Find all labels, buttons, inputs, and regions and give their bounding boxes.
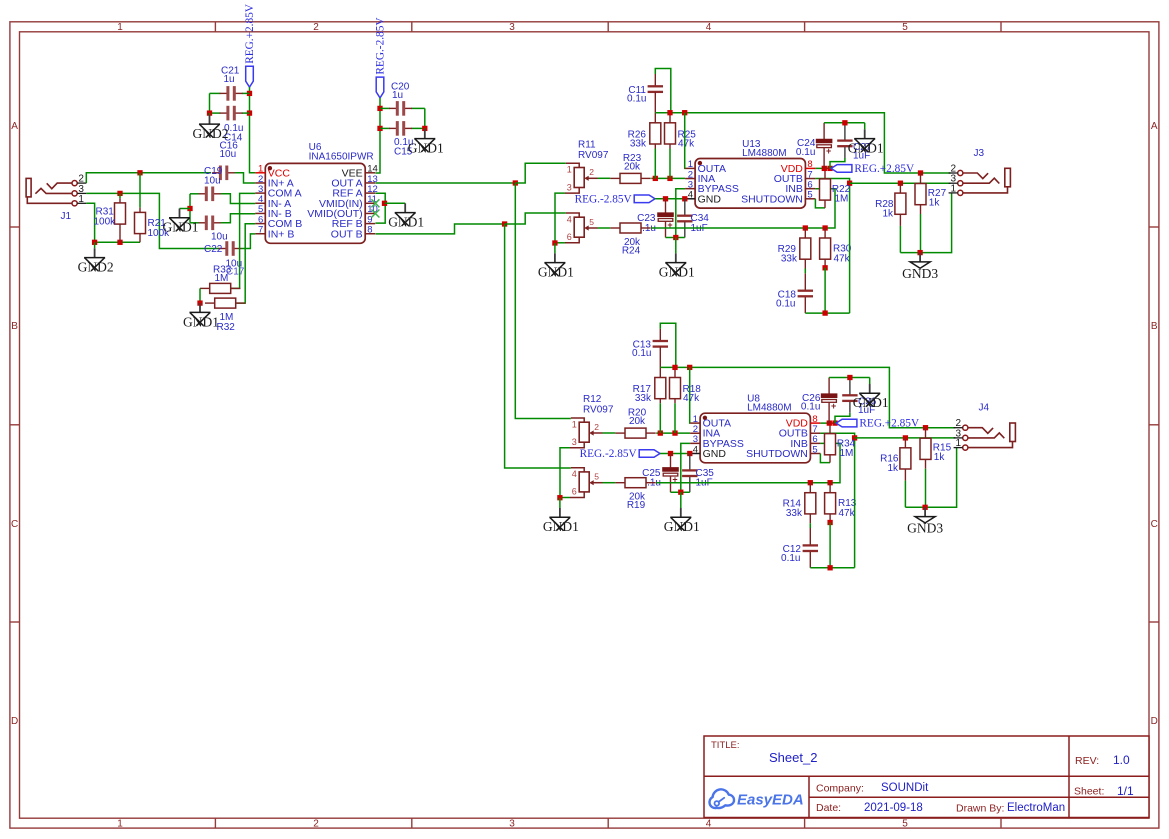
resistor R22 — [820, 168, 831, 208]
junction VDD b — [827, 166, 832, 171]
resistor R32 — [205, 298, 245, 308]
resistor R34 — [825, 423, 836, 463]
resistor R17 — [655, 367, 666, 403]
wire RloadA down — [920, 214, 922, 253]
label R23 — [623, 153, 642, 164]
svg-text:1: 1 — [567, 165, 572, 175]
label 33k — [635, 393, 652, 404]
svg-text:B: B — [11, 321, 18, 332]
label C16 — [220, 141, 239, 152]
wire RloadA down — [925, 469, 927, 508]
junction R33kB — [803, 225, 808, 230]
junction node INP-A — [137, 170, 142, 175]
junction bottom bus — [822, 310, 827, 315]
label R25 — [678, 130, 697, 141]
label 20k — [629, 492, 646, 503]
op-amp U8 LM4880M — [690, 413, 820, 463]
label 0.1u — [394, 137, 413, 148]
resistor R27 — [915, 173, 926, 214]
wire to GND1 — [180, 208, 191, 210]
label 10u — [226, 259, 243, 270]
svg-text:0.1u: 0.1u — [632, 348, 651, 359]
junction bus OUTA — [682, 110, 687, 115]
label LM4880M — [742, 148, 786, 159]
label R33 — [213, 265, 232, 276]
label 1k — [929, 198, 941, 209]
wire R47k to INA — [674, 403, 676, 433]
label R13 — [838, 498, 857, 509]
potentiometer R12 section 1-2-3 — [570, 418, 603, 448]
wire pot pin3 to gnd — [560, 448, 570, 498]
svg-text:Sheet_2: Sheet_2 — [769, 750, 817, 765]
wire OUT B to R12.4 — [505, 224, 571, 468]
svg-text:1u: 1u — [224, 74, 235, 85]
svg-text:R11: R11 — [578, 140, 596, 151]
wire C21/C14 gnd — [209, 93, 211, 113]
svg-text:4: 4 — [706, 819, 712, 830]
ground GND1 — [388, 203, 424, 229]
wire RloadB down — [899, 226, 901, 253]
ground GND2 — [193, 113, 229, 141]
label C23 — [637, 213, 656, 224]
resistor R26 — [650, 113, 661, 149]
label R14 — [783, 499, 802, 510]
wire R47kB down — [824, 268, 826, 313]
junction OUT A split — [513, 180, 518, 185]
svg-text:A: A — [11, 121, 18, 132]
wire decoupling cap b — [830, 158, 845, 168]
svg-text:1: 1 — [951, 183, 957, 194]
label LM4880M — [747, 403, 791, 414]
label 1u — [224, 74, 235, 85]
wire R33k to INA — [659, 403, 661, 433]
svg-text:10u: 10u — [204, 176, 221, 187]
svg-text:J3: J3 — [974, 148, 985, 159]
wire R33 to GND1 — [199, 288, 201, 303]
svg-text:LM4880M: LM4880M — [742, 148, 786, 159]
svg-text:1: 1 — [117, 819, 123, 830]
wire RseriesA to INA — [656, 432, 690, 434]
svg-text:0.1u: 0.1u — [801, 402, 820, 413]
svg-text:GND1: GND1 — [163, 220, 199, 235]
svg-text:5: 5 — [812, 444, 817, 455]
wire wiper2 to RseriesA — [598, 177, 611, 179]
wire VDD rail — [815, 167, 831, 169]
wire R33k to INA — [654, 149, 656, 179]
svg-text:5: 5 — [902, 819, 908, 830]
junction R47kB bottom — [827, 520, 832, 525]
wire pot pin6 to gnd — [559, 497, 570, 499]
svg-text:47k: 47k — [683, 393, 700, 404]
label C20 — [391, 82, 410, 93]
svg-text:20k: 20k — [629, 416, 646, 427]
junction jack ring Rload — [903, 435, 908, 440]
resistor R21 — [135, 208, 146, 243]
label 0.1u — [627, 94, 646, 105]
label R34 — [837, 439, 856, 450]
junction C bypass b — [682, 196, 687, 201]
ground GND1 — [538, 243, 574, 279]
wire pot pin6 to gnd — [554, 242, 565, 244]
wire C20 left — [380, 107, 390, 109]
junction bottom bus — [827, 565, 832, 570]
label C26 — [802, 393, 821, 404]
label J1 — [61, 211, 72, 222]
svg-text:GND1: GND1 — [853, 395, 889, 410]
ground GND1 — [853, 378, 889, 411]
junction OUTB — [847, 181, 852, 186]
junction OUTB — [852, 435, 857, 440]
label 1uF — [691, 223, 708, 234]
ground GND1 — [408, 128, 444, 155]
capacitor C16 10u — [212, 166, 235, 181]
junction R47kB — [827, 480, 832, 485]
title block texts — [711, 740, 1134, 815]
label C27 — [853, 142, 872, 153]
wire cap ground bus — [189, 194, 191, 223]
svg-text:1u: 1u — [392, 90, 403, 101]
svg-text:4: 4 — [572, 469, 577, 479]
svg-text:4: 4 — [706, 22, 712, 33]
svg-text:1: 1 — [78, 194, 84, 205]
wire VCC rail — [250, 87, 256, 173]
svg-text:REG.-2.85V: REG.-2.85V — [575, 193, 633, 205]
resistor R23 — [610, 173, 650, 183]
junction bus R47k — [667, 110, 672, 115]
potentiometer R11 section 4-5-6 — [565, 213, 598, 243]
wire C21 left — [210, 92, 221, 94]
svg-text:6: 6 — [567, 232, 572, 242]
wire R to C18 — [809, 523, 811, 528]
label 47k — [839, 508, 856, 519]
junction bus OUTA — [687, 365, 692, 370]
power flag REG.+2.85V — [836, 418, 920, 430]
svg-text:47k: 47k — [834, 254, 851, 265]
label R28 — [875, 199, 894, 210]
wire OUT B to R11.4 — [505, 213, 566, 224]
wire J1 tip to C16 — [86, 173, 211, 183]
junction pot gnd — [557, 495, 562, 500]
svg-text:+: + — [826, 146, 831, 156]
wire COM A to R33 — [231, 193, 255, 288]
svg-text:EasyEDA: EasyEDA — [737, 792, 804, 809]
connector audio jack J4 — [954, 418, 1016, 450]
label C36 — [858, 397, 877, 408]
wire J1 ring to C22 — [86, 193, 219, 248]
label 10u — [211, 232, 228, 243]
label R31 — [96, 207, 115, 218]
junction C14 gnd — [207, 110, 212, 115]
resistor R30 — [820, 228, 831, 268]
wire C20/C15 gnd — [424, 108, 426, 128]
svg-text:GND3: GND3 — [907, 521, 943, 536]
ground GND1 — [543, 498, 579, 534]
svg-text:2: 2 — [313, 819, 319, 830]
wire RloadB down — [904, 481, 906, 508]
label 20k — [624, 237, 641, 248]
label 0.1u — [801, 402, 820, 413]
svg-text:Sheet:: Sheet: — [1074, 786, 1104, 798]
wire OUTB to jack ring — [850, 182, 951, 184]
junction jack tip Rload — [923, 425, 928, 430]
wire bus to C19 — [190, 193, 199, 195]
label R21 — [148, 218, 167, 229]
junction C15 — [377, 126, 382, 131]
svg-text:6: 6 — [572, 487, 577, 497]
junction GND2 node — [92, 240, 97, 245]
svg-text:10u: 10u — [211, 232, 228, 243]
junction R33k bottom — [658, 430, 663, 435]
svg-text:D: D — [11, 716, 18, 727]
label R29 — [778, 244, 797, 255]
svg-text:2: 2 — [313, 22, 319, 33]
wire INB bus — [651, 189, 835, 228]
svg-text:C: C — [11, 519, 18, 530]
svg-text:GND2: GND2 — [78, 260, 114, 275]
capacitor C26 0.1u — [821, 378, 838, 424]
svg-text:33k: 33k — [781, 254, 798, 265]
svg-text:C22: C22 — [204, 244, 223, 255]
label R27 — [928, 188, 947, 199]
svg-text:REG.+2.85V: REG.+2.85V — [244, 3, 256, 64]
svg-text:OUT B: OUT B — [331, 228, 363, 240]
svg-text:7: 7 — [258, 225, 263, 236]
svg-text:GND1: GND1 — [408, 141, 444, 156]
junction R32 gnd — [197, 300, 202, 305]
capacitor C17 10u — [198, 216, 221, 231]
power flag REG.-2.85V — [580, 448, 660, 460]
label J4 — [979, 403, 990, 414]
svg-text:J4: J4 — [979, 403, 990, 414]
svg-text:C: C — [1151, 519, 1158, 530]
wire feedback bottom bus — [805, 312, 849, 314]
wire VEE rail — [375, 98, 380, 173]
junction OUT B split — [502, 221, 507, 226]
wire C19 to IN-A — [221, 194, 256, 204]
svg-text:IN+ B: IN+ B — [268, 228, 295, 240]
svg-text:RV097: RV097 — [583, 405, 614, 416]
label 20k — [629, 416, 646, 427]
wire bus to C17 — [190, 222, 199, 224]
power flag REG.-2.85V — [375, 17, 387, 98]
wire C14 right — [242, 112, 250, 114]
svg-text:Drawn By:: Drawn By: — [956, 803, 1004, 815]
wire bus to OUTA pin — [689, 367, 691, 423]
wire C feedback loop — [655, 69, 671, 113]
svg-text:3: 3 — [509, 22, 515, 33]
junction C bypass a — [663, 196, 668, 201]
label 1M — [220, 312, 234, 323]
wire wiper5 to RseriesB — [598, 227, 611, 229]
resistor R33 — [200, 283, 240, 293]
junction GND3 — [922, 505, 927, 510]
svg-text:5: 5 — [902, 22, 908, 33]
wire C15 left — [380, 127, 390, 129]
frame row letters — [11, 121, 1158, 727]
svg-text:3: 3 — [572, 437, 577, 447]
label 0.1u — [796, 147, 815, 158]
label 47k — [678, 138, 695, 149]
svg-text:33k: 33k — [635, 393, 652, 404]
svg-text:10u: 10u — [220, 149, 237, 160]
label 1k — [882, 209, 894, 220]
wire OUT A to R12.1 — [515, 183, 571, 419]
potentiometer R11 section 1-2-3 — [565, 163, 598, 193]
junction bypass gnd — [678, 490, 683, 495]
svg-text:REG.-2.85V: REG.-2.85V — [580, 448, 638, 460]
capacitor C15 0.1u — [389, 121, 412, 136]
label 10u — [220, 149, 237, 160]
label R18 — [683, 384, 702, 395]
ground GND2 — [78, 242, 114, 274]
wire C22 to IN+B — [241, 234, 255, 249]
svg-text:Date:: Date: — [816, 802, 841, 814]
label R16 — [880, 454, 899, 465]
resistor R14 — [805, 483, 816, 524]
label 1u — [392, 90, 403, 101]
capacitor C23 0.1u — [657, 199, 674, 238]
resistor R13 — [825, 483, 836, 523]
wire OUTA bus to jack — [655, 113, 950, 173]
junction R33k bottom — [653, 176, 658, 181]
capacitor C22 10u — [219, 241, 242, 256]
wire wiper5 to RseriesB — [603, 482, 616, 484]
label R24 — [622, 246, 641, 257]
wire bus to OUTA pin — [684, 113, 686, 169]
junction node INP-B — [117, 191, 122, 196]
capacitor C19 10u — [198, 187, 221, 202]
label C18 — [778, 290, 797, 301]
svg-text:SHUTDOWN: SHUTDOWN — [746, 448, 808, 460]
wire C17 to IN-B — [221, 214, 256, 223]
capacitor C34 1uF — [677, 199, 692, 238]
svg-text:33k: 33k — [630, 138, 647, 149]
wire OUT B — [375, 224, 504, 234]
svg-text:1: 1 — [956, 438, 962, 449]
label INA1650IPWR — [309, 152, 374, 163]
label RV097 — [583, 405, 614, 416]
label 1M — [215, 273, 229, 284]
svg-text:20k: 20k — [624, 162, 641, 173]
svg-text:3: 3 — [509, 819, 515, 830]
svg-text:1: 1 — [117, 22, 123, 33]
svg-text:4: 4 — [693, 444, 698, 455]
svg-text:+: + — [831, 401, 836, 411]
svg-text:5: 5 — [807, 190, 812, 201]
svg-text:47k: 47k — [839, 508, 856, 519]
junction decoupling gnd — [842, 120, 847, 125]
junction R33kB — [808, 480, 813, 485]
label R32 — [217, 322, 236, 333]
svg-text:1k: 1k — [929, 198, 941, 209]
junction R47kB — [822, 225, 827, 230]
svg-text:GND1: GND1 — [848, 141, 884, 156]
power flag REG.+2.85V — [831, 163, 915, 175]
wire -2.85V to GND pin — [655, 198, 685, 200]
svg-text:LM4880M: LM4880M — [747, 403, 791, 414]
wire VDD rail — [820, 422, 836, 424]
svg-text:R12: R12 — [583, 394, 602, 405]
potentiometer R12 section 4-5-6 — [570, 468, 603, 498]
label 0.1u — [632, 348, 651, 359]
label RV097 — [578, 150, 609, 161]
wire decoupling gnd bus — [824, 122, 865, 124]
label C12 — [783, 544, 802, 555]
capacitor C13 0.1u — [653, 329, 668, 347]
label 47k — [834, 254, 851, 265]
svg-text:GND3: GND3 — [902, 266, 938, 281]
ground GND1 — [659, 238, 695, 280]
label 10u — [204, 176, 221, 187]
svg-text:1.0: 1.0 — [1113, 753, 1130, 767]
label C13 — [633, 340, 652, 351]
svg-text:SHUTDOWN: SHUTDOWN — [741, 193, 803, 205]
op-amp U6 INA1650IPWR — [255, 163, 377, 243]
resistor R20 — [615, 428, 655, 438]
wire INB bus — [656, 443, 840, 482]
svg-text:100k: 100k — [94, 217, 117, 228]
label 20k — [624, 162, 641, 173]
svg-text:4: 4 — [567, 214, 572, 224]
wire COM B to R32 — [237, 224, 256, 303]
junction pot gnd — [552, 240, 557, 245]
wire SHUTDOWN to R pullup — [820, 454, 830, 463]
connector audio jack J3 — [949, 164, 1011, 196]
title block table — [704, 736, 1149, 818]
capacitor C36 1uF — [842, 378, 857, 413]
label 100k — [148, 228, 171, 239]
junction R47k bottom — [672, 430, 677, 435]
label 1M — [835, 193, 849, 204]
wire OUTB down — [815, 179, 849, 314]
wire REF A-B bus — [375, 193, 385, 223]
svg-text:R32: R32 — [217, 322, 236, 333]
wire jack sleeve gnd — [900, 193, 951, 253]
label 0.1u — [224, 123, 243, 134]
wire R21 top — [139, 173, 141, 208]
junction R31 bottom — [117, 240, 122, 245]
svg-text:R24: R24 — [622, 246, 641, 257]
label R26 — [628, 130, 647, 141]
ground GND3 — [902, 253, 938, 281]
svg-text:SOUNDit: SOUNDit — [881, 782, 929, 794]
junction jack ring Rload — [898, 181, 903, 186]
wire R47k to INA — [669, 149, 671, 179]
svg-text:1M: 1M — [835, 193, 849, 204]
ground GND3 — [907, 507, 943, 535]
junction C20 — [377, 106, 382, 111]
svg-text:GND1: GND1 — [543, 519, 579, 534]
wire C16 to IN+A — [235, 173, 255, 183]
svg-text:1k: 1k — [887, 463, 899, 474]
label 0.1u — [781, 553, 800, 564]
resistor R25 — [665, 113, 676, 149]
junction GND3 — [917, 250, 922, 255]
svg-text:3: 3 — [567, 182, 572, 192]
svg-text:GND: GND — [698, 193, 722, 205]
svg-text:GND2: GND2 — [193, 126, 229, 141]
label C14 — [224, 133, 243, 144]
svg-text:ElectroMan: ElectroMan — [1007, 802, 1065, 814]
wire RseriesA to INA — [651, 177, 685, 179]
svg-text:C17: C17 — [226, 267, 245, 278]
svg-text:J1: J1 — [61, 211, 72, 222]
wire pot pin3 to gnd — [555, 193, 565, 243]
svg-text:GND1: GND1 — [659, 265, 695, 280]
wire C20 right — [411, 107, 425, 109]
wire C15 right — [411, 127, 425, 129]
label R22 — [832, 184, 851, 195]
